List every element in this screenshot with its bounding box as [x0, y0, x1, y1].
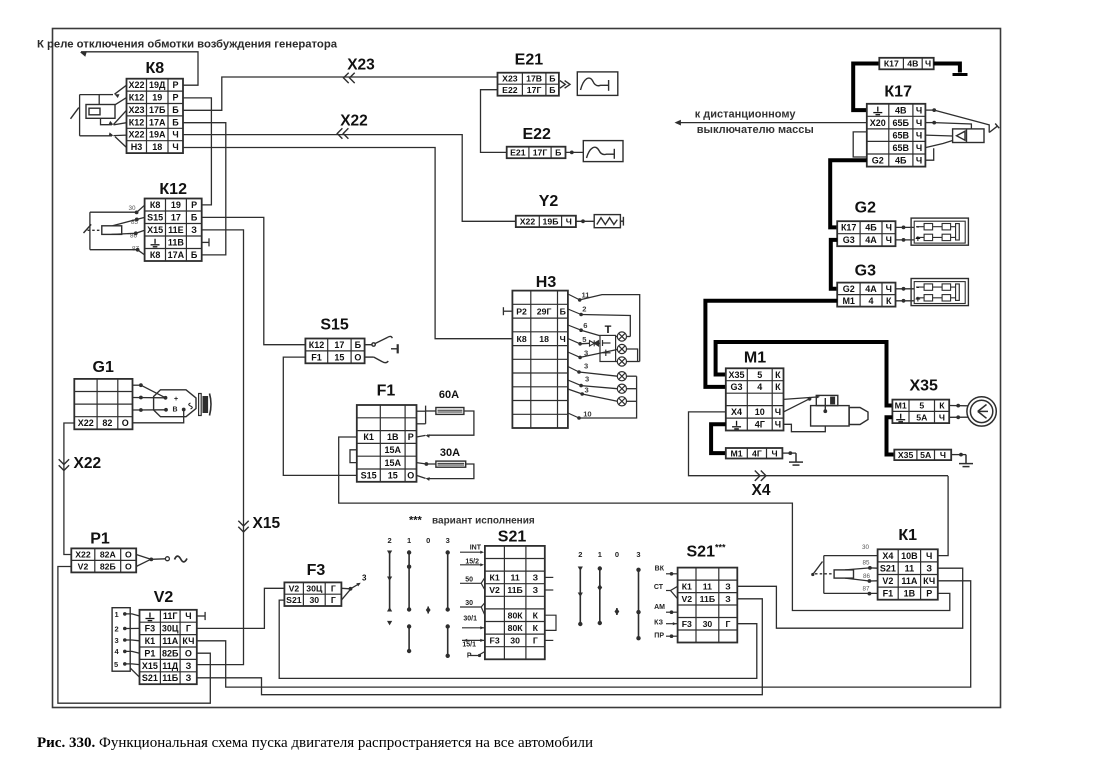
wire fuse60 to F1 K1 row [427, 411, 474, 435]
svg-text:X20: X20 [870, 118, 886, 128]
svg-text:К12: К12 [309, 340, 325, 350]
svg-text:11Б: 11Б [700, 594, 715, 604]
svg-text:Ч: Ч [925, 59, 931, 69]
connector table K12 [145, 199, 202, 262]
svg-text:СТ: СТ [654, 584, 664, 591]
svg-text:30Ц: 30Ц [306, 583, 323, 593]
relay K12 pin87 wire [90, 249, 138, 251]
V2 pin wire [125, 614, 140, 616]
fuse F1-30A [436, 461, 466, 467]
thick wire M1 row5 down [711, 424, 726, 453]
relay K8 diag to row6 [115, 137, 127, 148]
lamp H3-5 [617, 384, 626, 393]
svg-text:4: 4 [757, 382, 762, 392]
svg-text:Х22: Х22 [520, 217, 536, 227]
connector table F1 [357, 405, 417, 482]
thick wire G3 to M1 [705, 301, 837, 387]
svg-text:Б: Б [549, 74, 555, 84]
svg-text:S15: S15 [361, 471, 377, 481]
wire X35.2 to socket [949, 416, 968, 418]
svg-text:***: *** [409, 515, 423, 527]
remote ground switch box [953, 129, 984, 143]
svg-text:Ч: Ч [916, 156, 922, 166]
svg-text:К8: К8 [517, 334, 527, 344]
wire G1 row4 to generator tilde [133, 410, 184, 423]
svg-text:Ч: Ч [916, 130, 922, 140]
svg-text:S15: S15 [147, 213, 163, 223]
svg-text:-: - [916, 282, 919, 292]
svg-text:О: О [122, 418, 129, 428]
svg-text:2: 2 [582, 305, 586, 314]
svg-text:3: 3 [585, 375, 589, 384]
svg-text:Р: Р [172, 80, 178, 90]
svg-text:О: О [354, 352, 361, 362]
svg-text:Г: Г [726, 619, 731, 629]
wire M1 row3 to solenoid [784, 397, 819, 400]
svg-text:4А: 4А [865, 235, 877, 245]
svg-text:К1: К1 [145, 636, 156, 646]
svg-text:К: К [939, 401, 945, 411]
svg-text:17А: 17А [168, 250, 185, 260]
svg-text:Ч: Ч [886, 223, 892, 233]
svg-text:X4: X4 [882, 551, 893, 561]
relay K12 dashed link [88, 229, 102, 231]
svg-text:X35: X35 [898, 450, 914, 460]
svg-text:17: 17 [334, 340, 344, 350]
H3 wire pin3b to lamp4 [579, 372, 617, 376]
svg-text:10: 10 [583, 410, 591, 419]
diode symbol in H3 [590, 340, 601, 346]
svg-text:Б: Б [172, 117, 179, 127]
jumper bracket on F1 rows4-5 [350, 450, 357, 463]
wire G3.2 to battery [896, 300, 915, 302]
svg-text:Ч: Ч [940, 450, 946, 460]
svg-text:вариант исполнения: вариант исполнения [432, 516, 535, 527]
ground at X35-5A [959, 455, 973, 467]
svg-text:30Ц: 30Ц [162, 624, 179, 634]
svg-text:З: З [533, 573, 539, 583]
svg-text:F1: F1 [311, 352, 322, 362]
wire G1.4 to P1.1 (X22 net) [64, 423, 74, 555]
svg-text:15А: 15А [384, 458, 401, 468]
svg-text:Г: Г [331, 583, 336, 593]
svg-text:11А: 11А [901, 576, 918, 586]
svg-text:30: 30 [128, 205, 136, 212]
battery symbol at G2 [911, 218, 968, 245]
H3 lamp6 right arm [627, 400, 637, 402]
connector table E21 [498, 73, 559, 96]
svg-text:Н3: Н3 [131, 142, 143, 152]
svg-text:К: К [533, 623, 539, 633]
svg-text:5А: 5А [920, 450, 932, 460]
svg-text:М1: М1 [744, 350, 766, 367]
svg-text:4В: 4В [895, 105, 907, 115]
wire X4 net: M1.4 to K1.1 [689, 412, 949, 476]
S21*** left pin lines [666, 574, 678, 636]
svg-text:11Б: 11Б [507, 585, 522, 595]
svg-text:О: О [125, 562, 132, 572]
svg-text:К17: К17 [884, 59, 899, 69]
svg-text:17В: 17В [526, 74, 542, 84]
wire E22 to plug [566, 151, 584, 153]
H3 lamp5 right arm [627, 388, 637, 390]
svg-text:Е21: Е21 [510, 148, 526, 158]
stub K17.2 [925, 122, 933, 124]
svg-text:ПР: ПР [654, 633, 664, 640]
fuse60 feed tick [425, 406, 427, 424]
svg-text:65В: 65В [893, 130, 910, 140]
svg-text:15: 15 [388, 471, 398, 481]
svg-text:1: 1 [598, 550, 602, 559]
svg-text:3: 3 [585, 386, 589, 395]
thick wire K17top to K17 row1 [853, 64, 879, 111]
svg-text:З: З [186, 673, 192, 683]
svg-text:V2: V2 [681, 594, 692, 604]
svg-text:+: + [174, 396, 178, 403]
svg-text:X22: X22 [340, 113, 368, 130]
wire V2.2 to F3.1 [197, 588, 285, 628]
svg-text:Ч: Ч [886, 284, 892, 294]
thick wire G2 to G3 [831, 240, 837, 289]
svg-text:О: О [407, 471, 414, 481]
svg-text:К: К [533, 610, 539, 620]
svg-text:G3: G3 [730, 382, 742, 392]
svg-text:4Б: 4Б [895, 156, 907, 166]
svg-text:Y2: Y2 [539, 193, 559, 210]
svg-text:30: 30 [862, 544, 870, 551]
svg-text:30/1: 30/1 [463, 616, 477, 623]
thick wire X35 row2 down [887, 417, 895, 454]
wire Y2 to valve [576, 220, 594, 222]
svg-text:3: 3 [584, 361, 588, 370]
switch symbol at S15 [365, 336, 398, 362]
svg-text:З: З [186, 661, 192, 671]
svg-text:82Б: 82Б [162, 648, 179, 658]
relay K12 pin numbers 30 85 86 87 [128, 205, 139, 253]
svg-text:G2: G2 [843, 284, 855, 294]
wire V2.3 to K1.3 (11A net) [197, 581, 971, 687]
wire V2.4 to P1.2 (82B net) [58, 567, 210, 704]
relay K12 contact [84, 224, 92, 233]
svg-text:15А: 15А [384, 445, 401, 455]
svg-text:4Г: 4Г [755, 420, 765, 430]
lamp H3-6 [617, 397, 626, 406]
lamp H3-2 [617, 344, 626, 353]
svg-text:11: 11 [703, 582, 712, 592]
H3 wire pin2 [581, 315, 630, 337]
wire K12.2 to S15.1 [202, 217, 306, 344]
svg-text:V2: V2 [154, 589, 174, 606]
terminator on V2 row1 [197, 612, 205, 620]
svg-text:V2: V2 [489, 585, 500, 595]
H3 lamp2 right arm [627, 349, 638, 362]
svg-text:17: 17 [171, 213, 181, 223]
svg-text:4А: 4А [865, 284, 877, 294]
H3 wire pin3c to lamp5 [581, 386, 617, 389]
terminator on K12 row4 [202, 238, 209, 246]
svg-text:Р: Р [926, 589, 932, 599]
wire K1.1 up to X4 line [938, 476, 948, 556]
svg-text:11А: 11А [162, 636, 179, 646]
wire G1 row1 diag [141, 385, 166, 398]
connector table K17-4V [879, 58, 933, 70]
svg-text:1В: 1В [904, 589, 916, 599]
svg-text:6: 6 [583, 321, 587, 330]
svg-text:Рис. 330. Функциональная схема: Рис. 330. Функциональная схема пуска дви… [37, 735, 593, 751]
remote ground switch lever [989, 124, 999, 133]
svg-text:Б: Б [560, 306, 566, 316]
connector table X35-5A [894, 450, 951, 461]
relay K8 contact [71, 108, 79, 119]
wire K17.1 to switch lever [934, 110, 989, 132]
svg-text:11Б: 11Б [162, 673, 179, 683]
lamp H3-1 [617, 332, 626, 341]
wire G1 row2 to generator [133, 397, 166, 399]
svg-text:86: 86 [863, 573, 871, 580]
svg-text:Ч: Ч [172, 130, 178, 140]
svg-text:Р: Р [172, 93, 178, 103]
svg-text:50: 50 [465, 577, 473, 584]
connector table M1 [726, 368, 784, 430]
svg-text:X4: X4 [752, 482, 771, 499]
H3 wire pin5 to diode [580, 342, 589, 345]
svg-text:Ч: Ч [775, 407, 781, 417]
svg-text:18: 18 [152, 142, 162, 152]
S21*** position line 2 [579, 567, 581, 626]
F3 output fork with arrow and pin 3 [341, 584, 359, 601]
svg-text:17А: 17А [149, 117, 166, 127]
connector table S21 [485, 546, 545, 659]
relay K12 pin30 wire [90, 211, 137, 213]
svg-text:-: - [916, 222, 919, 232]
svg-text:М1: М1 [730, 448, 742, 458]
svg-text:18: 18 [539, 334, 549, 344]
svg-text:3: 3 [446, 536, 450, 545]
border frame [53, 29, 1001, 708]
svg-text:11Д: 11Д [162, 661, 179, 671]
svg-text:М1: М1 [895, 401, 907, 411]
svg-text:2: 2 [115, 624, 119, 633]
svg-text:1: 1 [115, 610, 119, 619]
svg-text:З: З [725, 582, 731, 592]
relay K12 diag to row1 [137, 205, 145, 212]
svg-text:Г: Г [331, 595, 336, 605]
svg-text:S21: S21 [880, 563, 896, 573]
svg-text:82: 82 [102, 418, 112, 428]
thick wire K17 to G2 [830, 160, 867, 227]
svg-text:5А: 5А [916, 412, 928, 422]
svg-text:5: 5 [582, 335, 587, 344]
svg-text:X35: X35 [909, 378, 938, 395]
V2 pin wire [125, 639, 140, 642]
terminator stub on H3 P2 row [503, 307, 512, 315]
svg-text:+: + [915, 234, 920, 244]
svg-text:О: О [125, 550, 132, 560]
svg-text:17Г: 17Г [527, 85, 542, 95]
wire X22 net: K8.5 to Y2 [183, 135, 516, 222]
connector table K1 [878, 549, 938, 599]
H3 wire pin3a to lamp2 [580, 350, 617, 358]
S21 left pin lines [460, 552, 485, 655]
S21*** left labels [654, 566, 665, 640]
svg-text:К8: К8 [145, 60, 164, 77]
connector table M1-4G [726, 448, 783, 459]
svg-text:17Г: 17Г [533, 148, 548, 158]
svg-text:Г: Г [533, 636, 538, 646]
svg-text:F3: F3 [145, 624, 156, 634]
svg-text:10: 10 [755, 407, 765, 417]
svg-text:Б: Б [191, 213, 198, 223]
svg-text:19: 19 [171, 200, 181, 210]
svg-text:82А: 82А [100, 550, 117, 560]
S21 position line 0 [427, 607, 429, 614]
svg-text:87: 87 [862, 586, 870, 593]
wire V2.6 to S21b.3 (11B net) [197, 599, 763, 695]
svg-text:К: К [886, 296, 892, 306]
wire K8.2 to K12.1 (P) [183, 98, 211, 205]
svg-text:0: 0 [426, 536, 430, 545]
wire K8.4 to K12.5 [183, 123, 226, 255]
H3 lamp1 right arm [627, 336, 631, 338]
svg-text:К1: К1 [363, 432, 374, 442]
S21*** position line 3 [638, 569, 640, 640]
svg-text:V2: V2 [882, 576, 893, 586]
relay K8 diag to row2 [115, 98, 127, 105]
svg-text:З: З [533, 585, 539, 595]
svg-text:О: О [185, 648, 192, 658]
svg-text:Ч: Ч [771, 448, 777, 458]
svg-text:19: 19 [152, 93, 162, 103]
diag into K1 row of F1 [417, 435, 426, 437]
svg-text:G2: G2 [855, 200, 876, 217]
svg-text:30: 30 [510, 636, 520, 646]
svg-text:Ч: Ч [185, 611, 191, 621]
svg-text:F1: F1 [377, 383, 396, 400]
svg-text:82Б: 82Б [100, 562, 116, 572]
H3 box-to-lamp3 link [616, 361, 618, 363]
svg-text:КЗ: КЗ [654, 620, 664, 627]
svg-text:З: З [725, 594, 731, 604]
svg-text:Ч: Ч [916, 105, 922, 115]
svg-text:S15: S15 [320, 317, 349, 334]
wire F1.3 to K1.4 (P net) [339, 437, 950, 611]
svg-text:1В: 1В [387, 432, 399, 442]
generator G1 terminals + B ~ [173, 396, 179, 414]
bracket on K17 rows3-4 [853, 132, 867, 157]
svg-text:65В: 65В [893, 143, 910, 153]
svg-text:Б: Б [555, 148, 561, 158]
connector table S21*** [678, 568, 738, 643]
relay K8 coil [86, 105, 115, 119]
svg-text:30: 30 [703, 619, 713, 629]
svg-text:17Б: 17Б [149, 105, 166, 115]
svg-text:1: 1 [407, 536, 411, 545]
wire G1 row3 to generator [133, 409, 167, 411]
generator symbol G1 body [154, 390, 196, 417]
V2 pin wire [125, 651, 140, 653]
svg-text:19Д: 19Д [149, 80, 166, 90]
battery symbol at G3 [911, 279, 968, 306]
wire M1 row5 return [784, 424, 826, 431]
V2 pin strip box [112, 608, 130, 672]
wire G2.2 to battery [896, 239, 915, 241]
svg-text:80К: 80К [508, 623, 524, 633]
svg-text:V2: V2 [78, 562, 89, 572]
connector table P1 [71, 548, 136, 572]
svg-text:X15: X15 [142, 661, 158, 671]
svg-text:К12: К12 [159, 181, 187, 198]
glow plug symbol E22 [583, 141, 623, 162]
svg-text:Н3: Н3 [536, 274, 557, 291]
svg-text:АМ: АМ [654, 604, 665, 611]
connector table K8 [127, 79, 184, 153]
thick wire M1 to X35 [716, 342, 893, 406]
svg-text:Ч: Ч [172, 142, 178, 152]
socket symbol at X35 (ring) [967, 397, 996, 426]
wire F3.2 to S21b.5 (30 net) [279, 600, 757, 678]
lamp H3-4 [617, 372, 626, 381]
chevron X15 [238, 521, 248, 532]
svg-text:2: 2 [578, 550, 582, 559]
solenoid valve symbol Y2 [594, 215, 623, 228]
svg-text:X15: X15 [147, 225, 163, 235]
wire X23 net: K8.3 to E21.1 [183, 77, 498, 110]
svg-text:Ч: Ч [926, 551, 932, 561]
svg-text:F3: F3 [307, 562, 326, 579]
svg-text:З: З [926, 563, 932, 573]
connector table H3 [512, 291, 568, 428]
svg-text:X15: X15 [253, 515, 281, 532]
relay K12 left rail [89, 212, 91, 250]
relay K1 contact [813, 562, 823, 575]
relay K8 diag to row5 [114, 134, 127, 137]
svg-text:Ч: Ч [916, 118, 922, 128]
ground at M1-4G [789, 453, 803, 465]
svg-text:Е21: Е21 [515, 52, 544, 69]
svg-text:F3: F3 [490, 636, 500, 646]
relay K1 coil-top diag to row2 [845, 568, 878, 570]
svg-text:5: 5 [114, 660, 118, 669]
relay K1 pin87 wire [824, 592, 878, 594]
wire S15.2 to F1.6 [283, 357, 357, 475]
svg-text:29Г: 29Г [537, 306, 552, 316]
svg-text:4: 4 [115, 647, 120, 656]
svg-text:Ч: Ч [886, 235, 892, 245]
svg-text:65Б: 65Б [893, 118, 910, 128]
svg-text:+: + [915, 294, 920, 304]
chevron X22 (left vertical) [59, 459, 69, 470]
svg-text:INT: INT [470, 545, 482, 552]
relay K1 coil [834, 570, 853, 578]
relay K12 coil-bottom diag to row3 [112, 230, 145, 234]
svg-text:М1: М1 [842, 296, 855, 306]
S21*** position line 0 [616, 608, 618, 615]
svg-text:Е22: Е22 [522, 126, 551, 143]
svg-text:F1: F1 [883, 589, 894, 599]
relay K8 diag to row4 [114, 123, 127, 125]
relay K8 wire to pin row1 [99, 94, 113, 96]
speed sensor symbol at P1 [136, 555, 187, 567]
svg-text:11В: 11В [168, 238, 185, 248]
connector table G2 [837, 221, 895, 246]
svg-text:Р1: Р1 [144, 648, 155, 658]
wire F1 row2 stub [417, 423, 426, 425]
svg-text:Б: Б [172, 105, 179, 115]
svg-text:X22: X22 [74, 455, 102, 472]
wire K17.5 up to row4 line [925, 148, 933, 160]
svg-text:X23: X23 [128, 105, 144, 115]
svg-text:Ч: Ч [775, 420, 781, 430]
